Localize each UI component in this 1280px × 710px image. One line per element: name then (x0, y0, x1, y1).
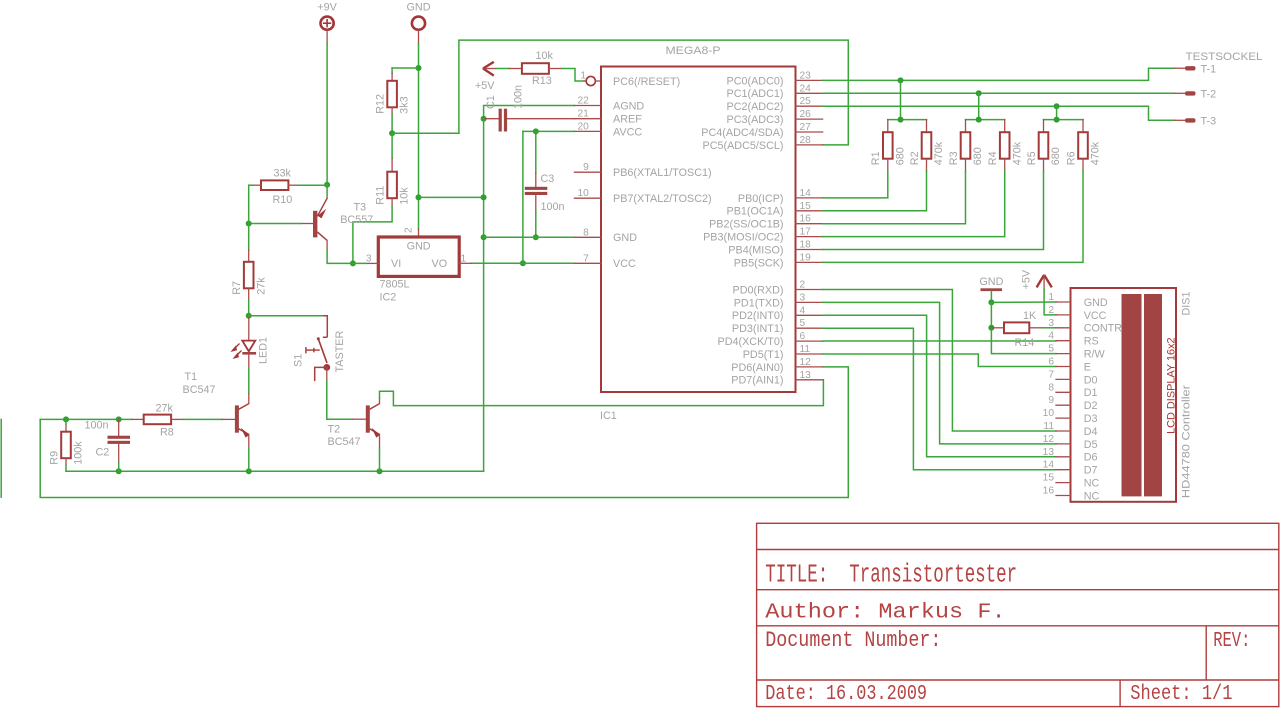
svg-text:PD4(XCK/T0): PD4(XCK/T0) (718, 336, 784, 348)
pin lead R13 left (509, 68, 522, 70)
wire GND down to R14 row (990, 302, 992, 327)
svg-text:C1: C1 (485, 95, 497, 109)
wire PD1 to LCD D5 (823, 302, 1056, 444)
node junction base column (246, 221, 252, 227)
svg-text:R12: R12 (375, 94, 387, 114)
svg-text:R1: R1 (870, 151, 882, 165)
resistor R14 body (1004, 322, 1029, 333)
wire PC0 to T-1 (823, 68, 1175, 80)
svg-text:VI: VI (391, 258, 401, 270)
svg-text:680: 680 (894, 147, 906, 165)
svg-text:PD6(AIN0): PD6(AIN0) (731, 362, 783, 374)
svg-text:REV:: REV: (1213, 629, 1250, 653)
svg-text:TESTSOCKEL: TESTSOCKEL (1186, 51, 1263, 63)
pin lead C1 left (484, 118, 499, 120)
op-amp/regulator IC2 7805L box (378, 237, 459, 276)
svg-text:PB3(MOSI/OC2): PB3(MOSI/OC2) (703, 232, 783, 244)
svg-text:+5V: +5V (475, 80, 495, 92)
svg-text:27: 27 (800, 122, 812, 133)
wire R1 to IC pin (823, 171, 888, 198)
pin lead LED1 cathode (248, 355, 250, 369)
IC1 right pin 5 PD3(INT1) (796, 327, 823, 329)
wire T3 base to R10/R7 column (249, 223, 301, 225)
pin T-3 connector (1175, 119, 1187, 121)
svg-text:D3: D3 (1084, 413, 1098, 425)
node junction AVCC riser/VCC row (520, 260, 526, 266)
transistor T1 collector diagonal (239, 404, 249, 410)
connector DIS1 pin 2 VCC (1056, 314, 1071, 316)
svg-text:D7: D7 (1084, 465, 1098, 477)
svg-text:18: 18 (800, 240, 812, 251)
wire PD5 to LCD E (823, 354, 1056, 367)
connector DIS1 pin 3 CONTR (1056, 327, 1071, 329)
IC1 right pin 26 PC3(ADC3) (796, 118, 823, 120)
pin lead R1 bottom (887, 159, 889, 171)
capacitor C3 plates (525, 187, 548, 190)
wire R11 top (391, 133, 393, 158)
svg-text:LCD DISPLAY 16x2: LCD DISPLAY 16x2 (1166, 337, 1178, 434)
svg-text:CONTR: CONTR (1084, 323, 1123, 335)
svg-text:VO: VO (432, 258, 448, 270)
svg-text:VCC: VCC (613, 258, 636, 270)
svg-text:13: 13 (800, 370, 812, 381)
wire R13 to IC pin 1 (562, 69, 584, 82)
IC1 right pin 17 PB3(MOSI/OC2) (796, 236, 823, 238)
op-amp IC1 MEGA8-P box outline (601, 67, 796, 393)
wire PD3 to LCD D7 (823, 328, 1056, 470)
node junction R5/R6 pair (1054, 117, 1060, 123)
svg-text:R10: R10 (273, 194, 293, 206)
svg-text:PB1(OC1A): PB1(OC1A) (727, 206, 784, 218)
pin T-1 connector (1175, 67, 1187, 69)
svg-text:PC0(ADC0): PC0(ADC0) (727, 75, 784, 87)
node junction R7/LED/S1 (246, 313, 252, 319)
wire +5V to R13 (496, 68, 509, 70)
node junction C2/rail (116, 468, 122, 474)
pin lead C3 top (535, 173, 537, 187)
+9V supply symbol (321, 17, 334, 44)
svg-text:10: 10 (577, 188, 589, 199)
IC1 right pin 13 PD7(AIN1) (796, 379, 823, 381)
svg-text:RS: RS (1084, 336, 1099, 348)
wire R12-R11 node to top loop riser (392, 132, 459, 134)
IC1 right pin 15 PB1(OC1A) (796, 210, 823, 212)
svg-text:PC1(ADC1): PC1(ADC1) (727, 88, 784, 100)
svg-text:6: 6 (800, 331, 806, 342)
node junction T2 emitter/rail (377, 468, 383, 474)
LCD display bars (1122, 294, 1142, 496)
svg-text:T-3: T-3 (1201, 115, 1217, 127)
capacitor C2 plates (108, 436, 131, 439)
svg-text:PC5(ADC5/SCL): PC5(ADC5/SCL) (703, 140, 784, 152)
connector DIS1 LCD box outline (1071, 288, 1177, 502)
wire PD4 to LCD RS (823, 340, 1056, 342)
transistor T3 emitter diagonal with arrow (317, 198, 327, 216)
svg-text:4: 4 (800, 305, 806, 316)
connector DIS1 pin 16 NC (1056, 495, 1071, 497)
wire riser to junction for R3/R4 (978, 93, 980, 119)
GND top supply symbol (412, 17, 425, 44)
pin lead T2 collector (379, 398, 381, 404)
wire R10 left corner (249, 184, 253, 186)
connector DIS1 pin 15 NC (1056, 482, 1071, 484)
pin lead R4 bottom (1004, 159, 1006, 171)
switch S1 actuator (306, 347, 320, 353)
svg-text:5: 5 (800, 318, 806, 329)
svg-text:470k: 470k (933, 141, 945, 165)
svg-text:AREF: AREF (613, 114, 642, 126)
title block divider lines (757, 550, 1279, 707)
capacitor C1 plates (499, 109, 502, 132)
wire GND down to R/W row (991, 328, 1056, 354)
svg-text:+5V: +5V (1021, 269, 1033, 289)
svg-text:16: 16 (1043, 486, 1055, 497)
resistor R11 body (387, 172, 397, 199)
node junction GND/R14 (988, 325, 994, 331)
svg-text:Author: Markus F.: Author: Markus F. (765, 599, 1005, 624)
svg-text:+9V: +9V (317, 2, 337, 14)
connector DIS1 pin 11 D4 (1056, 430, 1071, 432)
wire R7 node to S1 top (249, 315, 323, 317)
LED LED1 cathode bar (242, 352, 256, 355)
IC1 left pin 21 AREF (574, 118, 601, 120)
IC1 right pin 27 PC4(ADC4/SDA) (796, 131, 823, 133)
svg-text:470k: 470k (1090, 141, 1102, 165)
svg-text:8: 8 (1048, 382, 1054, 393)
wire ground row GND-column to spine (419, 196, 484, 198)
svg-text:R8: R8 (160, 427, 174, 439)
IC1 right pin 4 PD2(INT0) (796, 314, 823, 316)
wire R3 to IC pin (823, 171, 966, 224)
pin T-2 connector (1175, 92, 1187, 94)
svg-text:3k3: 3k3 (399, 96, 411, 113)
svg-text:14: 14 (1043, 460, 1055, 471)
switch S1 lever (318, 339, 327, 363)
IC1 left pin 8 GND (574, 236, 601, 238)
connector DIS1 pin 4 RS (1056, 340, 1071, 342)
svg-text:R4: R4 (987, 151, 999, 165)
wire R8 to T1 base (183, 418, 222, 420)
svg-text:R/W: R/W (1084, 349, 1106, 361)
pin lead R11 bottom (391, 198, 393, 206)
wire R10 corner down to base row (248, 185, 250, 223)
node junction C2 top (116, 416, 122, 422)
wire AVCC pin 20 net (523, 130, 575, 132)
svg-text:24: 24 (800, 83, 812, 94)
svg-text:15: 15 (1043, 473, 1055, 484)
svg-text:VCC: VCC (1084, 310, 1107, 322)
svg-text:LED1: LED1 (258, 337, 270, 364)
svg-text:4: 4 (1048, 331, 1054, 342)
svg-text:T-2: T-2 (1201, 88, 1217, 100)
IC1 right pin 12 PD6(AIN0) (796, 366, 823, 368)
svg-text:17: 17 (800, 227, 812, 238)
node junction R1/R2 pair (898, 117, 904, 123)
svg-text:3: 3 (800, 292, 806, 303)
IC1 right pin 11 PD5(T1) (796, 353, 823, 355)
svg-text:GND: GND (613, 232, 637, 244)
transistor T2 base bar (366, 405, 370, 432)
resistor R2 body (922, 132, 932, 159)
svg-text:T2: T2 (328, 424, 341, 436)
pin lead C2 bottom (118, 444, 120, 463)
pin lead R2 bottom (926, 159, 928, 171)
connector DIS1 pin 13 D6 (1056, 456, 1071, 458)
svg-text:1: 1 (580, 71, 586, 82)
svg-text:8: 8 (583, 227, 589, 238)
node junction C3/GND row (533, 234, 539, 240)
svg-text:D1: D1 (1084, 387, 1098, 399)
svg-text:PD0(RXD): PD0(RXD) (733, 284, 784, 296)
svg-text:PC2(ADC2): PC2(ADC2) (727, 101, 784, 113)
svg-text:100n: 100n (85, 420, 109, 432)
svg-text:D2: D2 (1084, 400, 1098, 412)
pin lead R1 top (887, 120, 889, 133)
pin lead R5 bottom (1043, 159, 1045, 171)
node junction GND/R12 top (416, 65, 422, 71)
svg-text:BC547: BC547 (183, 384, 216, 396)
pin lead C3 bottom (535, 195, 537, 210)
IC1 left pin 9 PB6(XTAL1/TOSC1) (574, 171, 601, 173)
svg-text:14: 14 (800, 188, 812, 199)
svg-text:11: 11 (800, 344, 811, 355)
svg-text:D4: D4 (1084, 426, 1098, 438)
node junction AVCC/C3 branch (533, 128, 539, 134)
svg-text:22: 22 (577, 96, 589, 107)
svg-text:10k: 10k (536, 50, 554, 62)
pin lead R3 top (965, 120, 967, 133)
wire ground spine down from C1 node (483, 119, 485, 472)
resistor R10 body (261, 180, 288, 190)
wire T1 emitter to rail (248, 448, 250, 471)
svg-text:2: 2 (404, 227, 415, 233)
node junction R12/R11/PC5 net (389, 130, 395, 136)
svg-text:R5: R5 (1026, 151, 1038, 165)
node junction PC0/R1R2 (898, 77, 904, 83)
transistor T2 emitter diagonal with arrow (370, 429, 380, 435)
svg-text:7805L: 7805L (380, 279, 410, 291)
wire GND pin 8 row (484, 236, 575, 238)
wire R1/R2 pair top (888, 119, 927, 121)
svg-text:12: 12 (1043, 434, 1055, 445)
svg-text:R13: R13 (532, 75, 552, 87)
pin lead R5 top (1043, 120, 1045, 133)
svg-text:PB7(XTAL2/TOSC2): PB7(XTAL2/TOSC2) (613, 193, 712, 205)
svg-text:R6: R6 (1065, 151, 1077, 165)
svg-text:23: 23 (800, 70, 812, 81)
node junction spine/GND pin8 row (481, 234, 487, 240)
resistor R3 body (961, 132, 971, 159)
wire GND column down to 7805 pin 2 (418, 44, 420, 230)
wire R9 bottom to rail (65, 465, 67, 471)
connector DIS1 pin 12 D5 (1056, 443, 1071, 445)
svg-text:1: 1 (461, 254, 467, 265)
IC1 right pin 24 PC1(ADC1) (796, 92, 823, 94)
svg-text:T-1: T-1 (1201, 63, 1217, 75)
IC1 right pin 16 PB2(SS/OC1B) (796, 223, 823, 225)
wire R12 bottom to node (391, 115, 393, 134)
svg-text:GND: GND (1084, 297, 1108, 309)
IC1 left pin 7 VCC (574, 262, 601, 264)
connector DIS1 pin 1 GND (1056, 301, 1071, 303)
svg-text:DIS1: DIS1 (1181, 291, 1193, 315)
wire left loop down (40, 367, 848, 498)
wire T2 collector to IC1 net (380, 380, 824, 406)
pin lead R9 bottom (65, 458, 67, 465)
svg-text:16: 16 (800, 214, 812, 225)
svg-text:D0: D0 (1084, 374, 1098, 386)
svg-text:100n: 100n (541, 201, 565, 213)
wire R2 to IC pin (823, 171, 927, 211)
svg-text:100k: 100k (73, 441, 85, 465)
svg-text:R3: R3 (948, 151, 960, 165)
resistor R9 body (61, 432, 71, 459)
connector DIS1 pin 7 D0 (1056, 378, 1071, 380)
pin lead T2 base (353, 418, 367, 420)
svg-text:9: 9 (1048, 395, 1054, 406)
svg-text:PC4(ADC4/SDA): PC4(ADC4/SDA) (701, 127, 783, 139)
svg-text:1K: 1K (1023, 310, 1037, 322)
svg-text:26: 26 (800, 109, 812, 120)
node junction PC2/R5R6 (1054, 103, 1060, 109)
wire T3 collector down to VI row (326, 240, 328, 250)
IC1 left pin 22 AGND (574, 105, 601, 107)
svg-text:R11: R11 (375, 186, 387, 205)
pin lead T3 base (301, 223, 313, 225)
pin lead R8 right (171, 418, 183, 420)
svg-text:28: 28 (800, 135, 812, 146)
svg-text:PD5(T1): PD5(T1) (743, 349, 784, 361)
pin lead R12 bottom (391, 107, 393, 114)
resistor R8 body (144, 415, 171, 425)
wire C3 top branch (535, 131, 537, 173)
pin stub 7805 VO pin 1 (459, 262, 471, 264)
switch S1 side stub (315, 367, 327, 381)
pin lead R7 bottom (248, 288, 250, 300)
resistor R13 body (522, 63, 549, 74)
IC1 right pin 14 PB0(ICP) (796, 197, 823, 199)
pin lead T1 collector (248, 394, 250, 404)
svg-text:19: 19 (800, 252, 812, 263)
svg-text:21: 21 (577, 109, 589, 120)
svg-text:PD2(INT0): PD2(INT0) (732, 310, 784, 322)
svg-text:TASTER: TASTER (334, 331, 346, 373)
LED LED1 emission arrows (232, 344, 241, 358)
+5V supply arrow (left) symbol (483, 62, 496, 76)
wire +9V rail down to T3 emitter junction (326, 44, 328, 185)
svg-text:15: 15 (800, 201, 812, 212)
transistor T3 base bar (313, 211, 317, 238)
svg-text:Date: 16.03.2009: Date: 16.03.2009 (765, 681, 927, 705)
svg-text:PB6(XTAL1/TOSC1): PB6(XTAL1/TOSC1) (613, 167, 712, 179)
svg-text:6: 6 (1048, 357, 1054, 368)
wire PC1 to T-2 (823, 92, 1175, 94)
wire AGND pin22 to C1 node (484, 106, 575, 120)
pin 1 inversion bubble PC6(/RESET) (584, 80, 586, 82)
pin lead R9 top (65, 424, 67, 432)
transistor T3 collector diagonal (317, 232, 327, 240)
svg-text:PD1(TXD): PD1(TXD) (734, 297, 784, 309)
node junction +9V/R10/T3 emitter (324, 182, 330, 188)
wire LED1 to T1 collector (248, 368, 250, 393)
wire PC2 to T-3 (823, 106, 1175, 120)
svg-text:100n: 100n (513, 85, 525, 109)
svg-text:13: 13 (1043, 447, 1055, 458)
pin lead R10 left (253, 184, 261, 186)
resistor R12 body (387, 81, 397, 108)
svg-text:Document Number:: Document Number: (765, 629, 941, 654)
svg-text:BC557: BC557 (340, 214, 373, 226)
svg-text:PB0(ICP): PB0(ICP) (738, 193, 784, 205)
svg-text:C2: C2 (96, 447, 110, 459)
svg-text:27k: 27k (156, 403, 174, 415)
IC1 right pin 28 PC5(ADC5/SCL) (796, 144, 823, 146)
pin lead C1 right to AREF pin 21 (507, 118, 574, 120)
connector DIS1 pin 8 D1 (1056, 391, 1071, 393)
node junction T1 emitter/rail (246, 468, 252, 474)
IC1 right pin 19 PB5(SCK) (796, 261, 823, 263)
svg-text:GND: GND (407, 2, 431, 14)
title block frame (757, 523, 1279, 706)
connector DIS1 pin 14 D7 (1056, 469, 1071, 471)
IC1 right pin 23 PC0(ADC0) (796, 79, 823, 81)
svg-text:NC: NC (1084, 490, 1100, 502)
wire AVCC down to VCC row (522, 131, 524, 263)
wire GND to LCD pin 1 (991, 301, 1056, 303)
pin lead T2 emitter (379, 434, 381, 448)
pin lead R14 left (991, 327, 1004, 329)
pin lead R6 bottom (1082, 159, 1084, 171)
IC1 left pin 10 PB7(XTAL2/TOSC2) (574, 197, 601, 199)
svg-text:R14: R14 (1015, 337, 1035, 349)
pin lead R4 top (1004, 120, 1006, 133)
svg-text:Sheet: 1/1: Sheet: 1/1 (1130, 682, 1232, 706)
svg-text:470k: 470k (1011, 141, 1023, 165)
svg-text:PB4(MISO): PB4(MISO) (728, 244, 783, 256)
wire riser to junction for R5/R6 (1056, 106, 1058, 119)
switch S1 top contact (323, 316, 328, 338)
svg-text:HD44780 Controller: HD44780 Controller (1181, 385, 1193, 498)
pin lead C2 top (118, 419, 120, 435)
svg-text:20: 20 (577, 121, 589, 132)
IC1 right pin 18 PB4(MISO) (796, 249, 823, 251)
transistor T1 base bar (235, 405, 239, 432)
svg-text:7: 7 (583, 253, 589, 264)
pin lead R2 top (926, 120, 928, 133)
svg-text:AGND: AGND (613, 100, 644, 112)
pin stub 7805 pin 2 (418, 229, 420, 237)
resistor R6 body (1078, 132, 1088, 159)
wire +5V to LCD VCC (1044, 289, 1056, 315)
wire R3/R4 pair top (966, 119, 1005, 121)
svg-text:12: 12 (800, 357, 812, 368)
svg-text:C3: C3 (541, 173, 555, 185)
connector DIS1 pin 5 R/W (1056, 353, 1071, 355)
node junction 7805 VI row / R11 drop (350, 260, 356, 266)
svg-text:680: 680 (972, 147, 984, 165)
wire dangling net at left edge (0, 419, 2, 497)
node junction C1/AGND (481, 116, 487, 122)
IC1 right pin 2 PD0(RXD) (796, 289, 823, 291)
svg-text:T1: T1 (185, 371, 198, 383)
svg-text:2: 2 (1048, 305, 1054, 316)
svg-text:2: 2 (800, 280, 806, 291)
pin lead LED1 anode (248, 316, 250, 341)
pin lead T1 emitter (248, 434, 250, 448)
svg-text:BC547: BC547 (328, 436, 361, 448)
pin lead R13 right (549, 68, 562, 70)
wire C2 bottom to rail (118, 463, 120, 472)
